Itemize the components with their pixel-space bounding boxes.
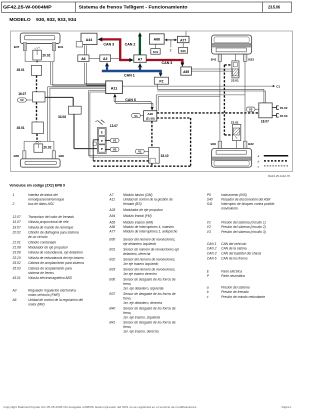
svg-text:Presión del sistema (circuito: Presión del sistema (circuito 3) [221, 230, 266, 234]
svg-text:B37: B37 [109, 292, 115, 296]
CAN 3 red segment 1 [102, 38, 121, 40]
svg-text:A6: A6 [81, 57, 85, 61]
small junction box [93, 142, 96, 146]
wire 20.02 down junction [36, 60, 38, 62]
svg-text:V3: V3 [249, 107, 253, 111]
svg-text:A64: A64 [108, 214, 115, 218]
ASC data bus double arrow [167, 39, 176, 41]
wire P2 to V1 [105, 148, 110, 150]
svg-text:sistema de frenos: sistema de frenos [28, 271, 54, 275]
svg-text:Válvula proporcional de relé: Válvula proporcional de relé [28, 220, 69, 224]
svg-text:B40: B40 [211, 142, 217, 146]
wire sensors down col a [49, 62, 51, 85]
svg-text:Transmisor del valor de frenad: Transmisor del valor de frenado [28, 215, 74, 219]
coupling head 35.03 [272, 114, 276, 116]
transmitter 13.07 outer [97, 127, 106, 153]
svg-text:S40: S40 [180, 49, 186, 53]
svg-text:22.01: 22.01 [12, 240, 21, 244]
wire pair A65 to valve [191, 68, 232, 70]
svg-text:A6: A6 [12, 298, 17, 302]
wire V1 to A28 [140, 115, 143, 117]
svg-text:Módulo de interruptores 4, mae: Módulo de interruptores 4, maestro [123, 225, 174, 229]
svg-text:Cabeza de acoplamiento para: Cabeza de acoplamiento para [28, 266, 72, 270]
wire lower pins [23, 141, 25, 150]
svg-text:Módulo de interruptores 1, ant: Módulo de interruptores 1, antepecho [123, 229, 177, 233]
wire lower sensors up col a [47, 87, 49, 142]
wire V3 to 18.07 [255, 108, 259, 110]
redundancy valve 33.10 [149, 147, 160, 163]
CAN 3 red arrow into A65 [180, 63, 184, 67]
svg-text:33.10: 33.10 [13, 256, 21, 260]
wire P1 to V1 [105, 139, 110, 141]
svg-text:Sensor del número de revolucio: Sensor del número de revoluciones, [123, 257, 175, 261]
svg-text:motor (MR): motor (MR) [28, 303, 45, 307]
transmitter cell E [99, 129, 106, 136]
oval V1 at P1 [110, 138, 119, 142]
CAN 3 red elbow down [119, 39, 121, 61]
svg-text:Parte neumática: Parte neumática [221, 274, 245, 278]
svg-text:Interruptor de bloqueo contra: Interruptor de bloqueo contra posible [221, 202, 275, 206]
svg-text:35.03: 35.03 [13, 266, 21, 270]
CAN 1 arrow to A7 [138, 63, 142, 67]
svg-text:A28: A28 [108, 208, 115, 212]
svg-text:Unidad de control de la regula: Unidad de control de la regulación del [28, 298, 83, 302]
CAN 3 red arrow into A44 [98, 37, 103, 41]
connector C1 [273, 85, 275, 87]
svg-text:freno,: freno, [123, 282, 131, 286]
svg-text:B33: B33 [248, 58, 254, 62]
svg-text:CAN de la cabina: CAN de la cabina [221, 247, 247, 251]
CAN 3 red arrow into A7 [129, 58, 133, 62]
svg-text:A77: A77 [180, 38, 186, 42]
svg-text:CAN del vehículo: CAN del vehículo [221, 242, 246, 246]
svg-text:A11: A11 [111, 86, 118, 90]
wire bundle into A11 e [48, 86, 106, 88]
wire bundle into A11 f [50, 87, 106, 89]
svg-text:18.07: 18.07 [261, 120, 269, 124]
svg-text:Página 1: Página 1 [282, 406, 292, 409]
svg-text:23.5.06: 23.5.06 [268, 5, 280, 10]
svg-text:B31: B31 [109, 247, 115, 251]
svg-text:Sensor de desgaste de los forr: Sensor de desgaste de los forros de [123, 277, 176, 281]
svg-text:Interfaz de datos del: Interfaz de datos del [28, 193, 58, 197]
svg-text:1er. eje delantero, derecha: 1er. eje delantero, derecha [123, 301, 162, 305]
svg-text:V1: V1 [207, 220, 211, 224]
svg-text:930, 932, 933, 934: 930, 932, 933, 934 [36, 17, 77, 22]
svg-text:A3: A3 [12, 288, 17, 292]
svg-text:B40: B40 [109, 306, 115, 310]
svg-text:B32: B32 [109, 257, 115, 261]
wire A28 top pair right a [155, 95, 157, 111]
svg-text:Sensor del número de revolucio: Sensor del número de revoluciones, [123, 237, 175, 241]
svg-text:20.02: 20.02 [42, 53, 50, 57]
svg-text:33.08: 33.08 [58, 115, 66, 119]
wear sensor pin B40 [218, 141, 221, 148]
pneumatic dashed 45.01 to 16.07 [36, 76, 38, 92]
CAN 6 arrow into A11 [113, 94, 116, 97]
oval V1 at A28 [132, 113, 141, 117]
svg-text:V2: V2 [20, 98, 24, 102]
CAN 6 line [113, 97, 115, 102]
svg-text:Módulo básico (GM): Módulo básico (GM) [123, 193, 152, 197]
CAN 6 arrow into A28 [151, 107, 154, 110]
svg-text:33.08: 33.08 [13, 251, 21, 255]
svg-text:1er. eje trasero, derecha: 1er. eje trasero, derecha [123, 329, 159, 333]
svg-text:Válvula de mando de remolque: Válvula de mando de remolque [28, 225, 73, 229]
svg-text:V1: V1 [134, 114, 138, 118]
wire A77 to S40 [182, 43, 184, 48]
svg-text:E: E [101, 131, 103, 135]
svg-text:1er eje trasero derecho: 1er eje trasero derecho [123, 272, 157, 276]
brake caliper rear right [212, 35, 252, 54]
svg-text:B37: B37 [14, 45, 20, 49]
svg-text:Presión del sistema (circuito: Presión del sistema (circuito 2) [221, 225, 266, 229]
svg-text:B30: B30 [109, 237, 115, 241]
svg-text:1er. eje delantero, izquierda: 1er. eje delantero, izquierda [123, 286, 164, 290]
svg-text:V3: V3 [207, 230, 211, 234]
wire bundle into A11 b [86, 63, 88, 86]
svg-text:35.02: 35.02 [13, 261, 21, 265]
pneumatic dashed valve branch [224, 64, 232, 66]
svg-text:45.01: 45.01 [17, 68, 25, 72]
svg-text:1: 1 [13, 193, 15, 197]
wire B41 down [219, 61, 221, 141]
svg-text:CAN 6: CAN 6 [207, 256, 217, 260]
svg-text:16.07: 16.07 [18, 92, 26, 96]
svg-text:13.07: 13.07 [13, 215, 21, 219]
diaphragm cylinder 20.02 lower [34, 144, 43, 152]
svg-text:B36: B36 [14, 154, 20, 158]
svg-text:B30: B30 [59, 154, 65, 158]
svg-text:Presión de frenado: Presión de frenado [221, 290, 249, 294]
svg-text:eje delantero izquierdo: eje delantero izquierdo [123, 242, 156, 246]
header divider 2 [261, 2, 263, 12]
svg-text:C1: C1 [276, 85, 280, 89]
svg-text:Sensor del número de revolucio: Sensor del número de revoluciones, [123, 267, 175, 271]
svg-text:frenado (BS): frenado (BS) [123, 202, 142, 206]
wire A6 to A3 [89, 57, 100, 59]
wire P1 left stub [93, 139, 98, 141]
svg-text:Módulo frontal (FM): Módulo frontal (FM) [123, 214, 152, 218]
CAN 2 green line [139, 36, 141, 55]
schematic frame [11, 31, 293, 172]
svg-text:CAN de los frenos: CAN de los frenos [221, 256, 248, 260]
svg-text:Pulsador de desconexión del AS: Pulsador de desconexión del ASR [221, 198, 271, 202]
svg-text:CAN 3: CAN 3 [207, 252, 217, 256]
svg-text:GF42.25-W-0004MP: GF42.25-W-0004MP [3, 5, 52, 10]
svg-text:CAN del bastidor del chasis: CAN del bastidor del chasis [221, 252, 261, 256]
svg-text:B41: B41 [109, 320, 115, 324]
svg-text:35.02: 35.02 [280, 106, 288, 110]
wire sensors down col b [52, 62, 54, 86]
speed sensor pin B33 [243, 54, 247, 61]
svg-text:Presión del sistema (circuito: Presión del sistema (circuito 1) [221, 220, 266, 224]
pneumatic dashed 45.01 to 20.02 [36, 134, 38, 142]
svg-text:A66: A66 [154, 38, 160, 42]
svg-text:freno,: freno, [123, 311, 131, 315]
svg-text:B36: B36 [109, 277, 115, 281]
svg-text:45.01: 45.01 [17, 126, 25, 130]
svg-text:A3: A3 [103, 57, 107, 61]
svg-text:Vehículos sin código (ZX2) EPB: Vehículos sin código (ZX2) EPB 9 [9, 183, 65, 187]
svg-text:RA42.25-1142-76: RA42.25-1142-76 [268, 174, 291, 178]
diaphragm cylinder 20.02 front [33, 50, 42, 60]
CAN 2 green arrow up [138, 32, 142, 36]
svg-text:A7: A7 [138, 57, 143, 61]
speed sensor pin B31 [52, 43, 55, 51]
svg-text:de un circuito: de un circuito [28, 235, 48, 239]
wire A3 to red elbow [111, 57, 119, 59]
wire B33 down [244, 61, 246, 141]
svg-text:CAN 1: CAN 1 [207, 242, 217, 246]
svg-text:Válvula de redundancia del eje: Válvula de redundancia del eje trasero [28, 256, 84, 260]
combination cylinder 22.01 upper [232, 61, 239, 78]
oval V1 at 33.10 [135, 149, 144, 153]
svg-text:Unidad de control de la gestió: Unidad de control de la gestión de [123, 198, 173, 202]
oval V3 [246, 107, 255, 111]
combination cylinder 22.01 lower [233, 124, 241, 140]
pneumatic dashed bottom run [93, 165, 190, 167]
oval V2 at P2 [110, 147, 119, 151]
svg-text:A11: A11 [108, 198, 115, 202]
wire bundle into A11 c [50, 83, 105, 85]
svg-text:delantero, derecha: delantero, derecha [123, 252, 150, 256]
pneumatic dashed into valve2 [224, 134, 232, 136]
svg-text:movimiento: movimiento [221, 207, 238, 211]
svg-text:P: P [101, 147, 103, 151]
speed sensor pin B30 [52, 151, 55, 160]
CAN 1 elbow to P2 [159, 71, 162, 73]
svg-text:freno,: freno, [123, 325, 131, 329]
svg-text:A66: A66 [108, 225, 115, 229]
svg-text:bus de datos ASC: bus de datos ASC [28, 202, 55, 206]
svg-text:A65: A65 [108, 220, 115, 224]
wire A66 to S41 [155, 44, 157, 48]
svg-text:Sensor de número de revolucion: Sensor de número de revoluciones eje [123, 247, 179, 251]
pedal icon [98, 121, 103, 125]
wire A77 up to trailer interface [185, 31, 187, 36]
relay valve 16.07 [33, 92, 45, 102]
coupling head 35.02 [272, 107, 276, 109]
svg-text:CAN 2: CAN 2 [207, 247, 217, 251]
wire bundle to 33.10 b [90, 91, 106, 93]
ABS valve 45.01 front [31, 65, 41, 75]
svg-text:remolque/semirremolque: remolque/semirremolque [28, 198, 64, 202]
svg-text:Cilindro de diafragma para sis: Cilindro de diafragma para sistema [28, 231, 79, 235]
wire V1 to 33.10 [144, 150, 148, 152]
svg-text:B41: B41 [211, 58, 217, 62]
svg-text:Instrumento (INS): Instrumento (INS) [221, 193, 247, 197]
pneumatic dashed into 33.10 [93, 160, 148, 162]
ABS valve 45.01 rear-left-circuit [32, 122, 43, 134]
wear sensor pin B36 [23, 151, 26, 160]
brake management A11 [106, 81, 123, 94]
wire node lower horizontal [24, 140, 54, 142]
wire bundle into A11 a [84, 63, 86, 84]
brake line 33.08 down to transmitter [73, 114, 75, 148]
svg-text:18.07: 18.07 [13, 225, 21, 229]
svg-text:Parte eléctrica: Parte eléctrica [221, 269, 242, 273]
svg-text:Modulador de eje propulsor: Modulador de eje propulsor [28, 246, 69, 250]
svg-text:P5: P5 [207, 193, 211, 197]
wire valve2 to caliper [236, 141, 238, 149]
svg-text:1er. eje trasero, izquierda: 1er. eje trasero, izquierda [123, 315, 160, 319]
header divider 1 [74, 2, 76, 12]
svg-text:22.01: 22.01 [231, 79, 239, 83]
wire valve to caliper [234, 54, 236, 61]
trailer control valve 18.07 [259, 103, 272, 118]
svg-text:20.02: 20.02 [12, 231, 21, 235]
svg-text:S41: S41 [207, 202, 213, 206]
net 2 tick [170, 40, 172, 47]
wire V2 to 16.07 [26, 99, 32, 101]
brake line 16.07 to 33.08 [45, 96, 73, 98]
svg-text:A65: A65 [183, 70, 189, 74]
svg-text:S40: S40 [207, 198, 213, 202]
svg-text:V1: V1 [138, 150, 142, 154]
transmitter cell P1 [99, 137, 106, 144]
svg-text:35.03: 35.03 [280, 114, 288, 118]
brake caliper rear left [212, 148, 252, 167]
wire pins to node [24, 51, 26, 62]
svg-text:(31.08): (31.08) [146, 117, 155, 121]
pneumatic dashed 16.07 down [36, 102, 38, 122]
svg-text:A7: A7 [108, 193, 113, 197]
pneumatic dashed long vertical [223, 65, 225, 135]
axle modulator A28 [144, 111, 157, 121]
svg-text:Válvula electromagnética ABS: Válvula electromagnética ABS [28, 276, 73, 280]
svg-text:31.08: 31.08 [13, 246, 21, 250]
svg-text:A28: A28 [147, 112, 153, 116]
svg-text:A77: A77 [108, 229, 115, 233]
svg-text:45.01: 45.01 [13, 276, 21, 280]
svg-text:Copyright DaimlerChrysler AG: Copyright DaimlerChrysler AG 05.05.2006 … [3, 406, 197, 409]
svg-text:b: b [207, 290, 209, 294]
brake caliper front right [20, 33, 60, 43]
svg-text:B31: B31 [58, 45, 64, 49]
CAN 3 red elbow 2 [181, 60, 183, 64]
pressure oval V2 [18, 98, 27, 102]
svg-text:Módulo trasero (HM): Módulo trasero (HM) [123, 220, 153, 224]
instrument P2 [154, 77, 168, 84]
wire C1 from A11 [122, 85, 272, 87]
svg-text:B32: B32 [248, 142, 254, 146]
svg-text:V2: V2 [113, 148, 117, 152]
CAN 1 arrow to A3 [105, 62, 109, 66]
pneumatic dashed A28 to 18.07 [157, 112, 259, 114]
svg-text:Cabeza de acoplamiento para si: Cabeza de acoplamiento para sistema [28, 261, 84, 265]
svg-text:Válvula de redundancia, eje de: Válvula de redundancia, eje delantero [28, 251, 83, 255]
svg-text:A44: A44 [86, 38, 92, 42]
wire node horizontal [25, 61, 54, 63]
speed sensor pin B32 [243, 141, 247, 148]
svg-text:Presión del sistema: Presión del sistema [221, 285, 250, 289]
svg-text:13.07: 13.07 [110, 124, 118, 128]
svg-text:Regulador regulación electróni: Regulador regulación electrónica [28, 288, 76, 292]
control unit A6 [78, 55, 89, 62]
svg-text:16.07: 16.07 [13, 220, 21, 224]
switch S40 [179, 47, 188, 53]
wire A28 top pair right b [157, 96, 159, 110]
svg-text:Sensor de desgaste de los forr: Sensor de desgaste de los forros de [123, 306, 176, 310]
svg-text:Sensor de desgaste de los forr: Sensor de desgaste de los forros de [123, 320, 176, 324]
wear sensor pin B37 [23, 43, 26, 51]
svg-text:a: a [207, 285, 209, 289]
svg-text:CAN 6: CAN 6 [125, 98, 136, 102]
svg-text:P2: P2 [159, 79, 163, 83]
pneumatic dashed A28 right short [157, 117, 191, 119]
svg-text:2: 2 [170, 49, 172, 53]
redundancy valve 33.08 [68, 106, 81, 114]
wire pneumatic left vertical [92, 140, 94, 161]
wire P2 to 18.07 b [157, 90, 265, 92]
svg-text:CAN 1: CAN 1 [124, 73, 135, 77]
switch S41 [151, 49, 160, 55]
svg-text:1er eje trasero izquierdo: 1er eje trasero izquierdo [123, 262, 158, 266]
pneumatic dashed down at 190 [190, 118, 192, 166]
wire lower sensors up col b [49, 88, 51, 141]
svg-text:freno,: freno, [123, 296, 131, 300]
brake caliper front left [20, 159, 60, 167]
wire A44 to A6 pair [84, 45, 86, 55]
svg-text:Sensor de desgaste de los forr: Sensor de desgaste de los forros de [123, 292, 176, 296]
wire bundle to 33.10 a [88, 90, 105, 92]
svg-text:V1: V1 [113, 139, 117, 143]
switch module A66 [149, 34, 164, 44]
svg-text:33.10: 33.10 [161, 154, 169, 158]
wire bundle into A11 d [53, 85, 106, 87]
transmitter cell P2 [99, 145, 106, 152]
basic module A7 [134, 55, 146, 62]
svg-text:CAN 2: CAN 2 [125, 43, 136, 47]
svg-text:Presión de mando redundante: Presión de mando redundante [221, 295, 265, 299]
rear module A65 [181, 67, 192, 75]
control unit A44 [81, 33, 97, 44]
control unit A3 [100, 55, 111, 62]
CAN 1 blue line [102, 70, 162, 73]
svg-text:V2: V2 [207, 225, 211, 229]
pneumatic dashed A28 bottom [151, 121, 153, 166]
svg-text:motor-vehículo (FMR): motor-vehículo (FMR) [28, 293, 60, 297]
svg-text:20.02: 20.02 [43, 146, 51, 150]
svg-text:22.01: 22.01 [231, 121, 239, 125]
svg-text:Modulador de eje propulsor: Modulador de eje propulsor [123, 208, 164, 212]
connector at A44 [76, 42, 82, 47]
svg-text:2: 2 [12, 202, 15, 206]
svg-text:S41: S41 [153, 50, 159, 54]
svg-text:Cilindro combinado: Cilindro combinado [28, 240, 56, 244]
svg-text:MODELO: MODELO [9, 17, 31, 22]
wear sensor pin B41 [218, 54, 221, 61]
wire P2 to 18.07 a [156, 84, 158, 89]
svg-text:P: P [101, 139, 103, 143]
svg-text:CAN 3: CAN 3 [162, 61, 173, 65]
svg-text:Sistema de frenos Telligent -: Sistema de frenos Telligent - Funcionami… [79, 5, 188, 10]
switch module A77 [177, 36, 189, 42]
CAN 3 red segment 3 [146, 59, 183, 61]
header table [2, 2, 292, 12]
svg-text:CAN 3: CAN 3 [103, 43, 114, 47]
svg-text:B33: B33 [109, 267, 115, 271]
CAN 3 red segment 2 [120, 59, 130, 61]
